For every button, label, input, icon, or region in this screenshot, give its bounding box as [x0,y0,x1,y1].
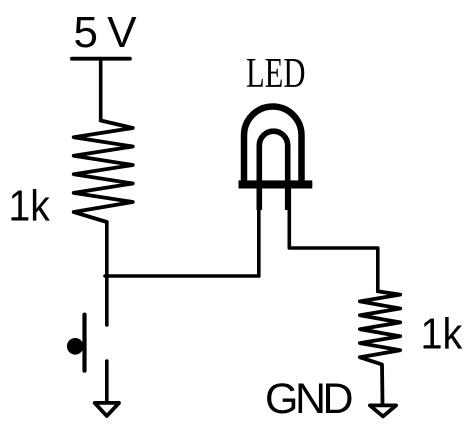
svg-text:5 V: 5 V [74,8,138,57]
svg-text:1k: 1k [421,309,463,358]
svg-text:LED: LED [246,50,305,97]
svg-text:GND: GND [265,375,352,423]
svg-text:1k: 1k [9,182,51,230]
